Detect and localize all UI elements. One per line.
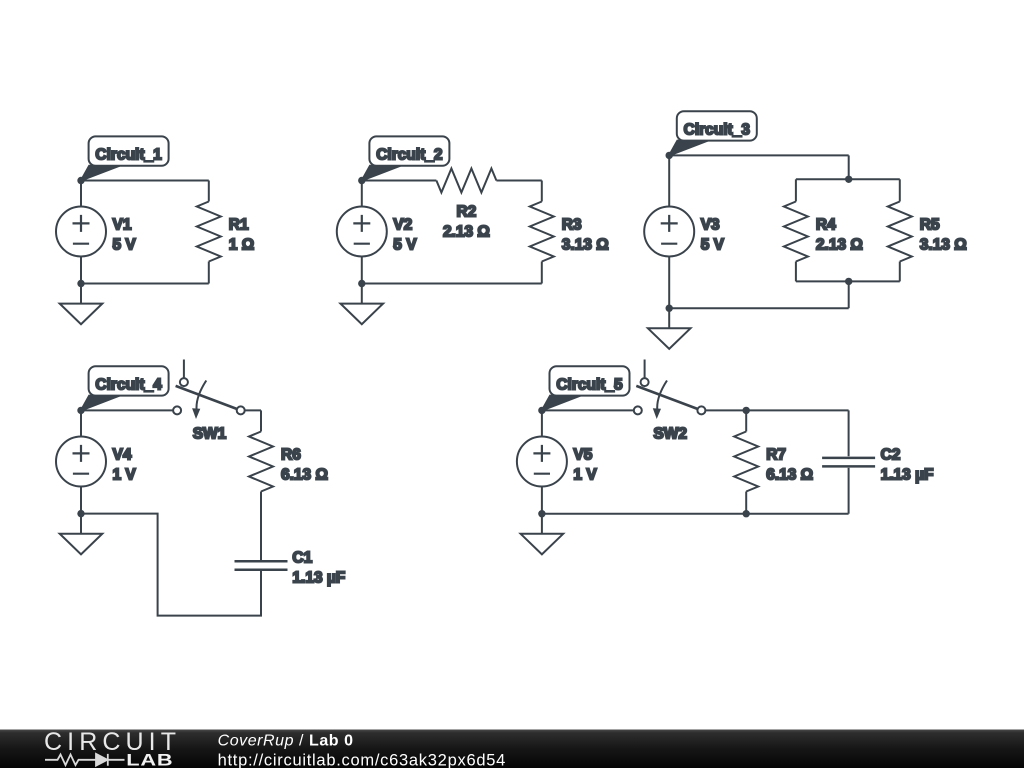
label C2: [881, 447, 934, 484]
wire: [668, 257, 670, 309]
voltage source V4: [56, 437, 106, 487]
svg-text:Circuit_1: Circuit_1: [95, 146, 162, 163]
wire: [796, 178, 900, 180]
node Circuit_5 junction: [538, 407, 545, 414]
wire: [848, 155, 850, 179]
label V3: [701, 217, 725, 254]
wire: [260, 492, 262, 561]
label C1: [292, 550, 345, 587]
label V1: [113, 217, 137, 254]
wire: [848, 468, 850, 514]
voltage source V1: [56, 207, 106, 257]
switch SW1 left throw terminal: [173, 406, 181, 414]
svg-text:V5: V5: [573, 447, 592, 464]
svg-text:R4: R4: [816, 217, 836, 234]
label V4: [113, 447, 137, 484]
resistor R6: [249, 432, 273, 492]
wire: [669, 154, 849, 156]
svg-text:C2: C2: [881, 447, 901, 464]
svg-text:2.13 Ω: 2.13 Ω: [443, 224, 490, 241]
wire: [542, 513, 849, 515]
resistor R2: [436, 169, 496, 193]
wire: [81, 409, 173, 411]
wire: [81, 514, 261, 616]
wire: [361, 257, 363, 284]
junction: [845, 278, 852, 285]
voltage source V3: [644, 207, 694, 257]
svg-text:V4: V4: [113, 447, 132, 464]
wire: [80, 410, 82, 436]
wire: [81, 283, 209, 285]
label V2: [393, 217, 417, 254]
switch SW2 actuation arrow: [653, 381, 667, 420]
switch SW1 common terminal: [237, 406, 245, 414]
wire: [848, 281, 850, 308]
switch SW1 top-throw stub: [183, 360, 185, 379]
svg-text:V2: V2: [393, 217, 412, 234]
wire: [899, 262, 901, 282]
svg-text:Circuit_5: Circuit_5: [556, 376, 623, 393]
wire: [260, 410, 262, 431]
svg-text:3.13 Ω: 3.13 Ω: [562, 237, 609, 254]
switch SW1 lever: [176, 386, 241, 411]
svg-text:R6: R6: [281, 447, 301, 464]
wire: [80, 487, 82, 514]
label R7: [766, 447, 813, 484]
wire: [362, 180, 437, 182]
net flag Circuit_4: [81, 366, 169, 410]
label V5: [573, 447, 597, 484]
ground: [648, 308, 691, 349]
svg-text:CoverRup / Lab 0: CoverRup / Lab 0: [218, 733, 354, 750]
switch SW1 actuation arrow: [192, 381, 206, 420]
node 0 junction: [538, 510, 545, 517]
svg-text:3.13 Ω: 3.13 Ω: [920, 237, 967, 254]
wire: [669, 307, 849, 309]
wire: [80, 181, 82, 207]
wire: [848, 410, 850, 456]
svg-text:Circuit_3: Circuit_3: [684, 121, 751, 138]
wire: [208, 181, 210, 202]
svg-text:V3: V3: [701, 217, 720, 234]
svg-text:1.13 µF: 1.13 µF: [881, 467, 934, 484]
label R5: [920, 217, 967, 254]
net flag Circuit_3: [669, 111, 757, 155]
svg-text:R3: R3: [562, 217, 582, 234]
ground: [341, 284, 384, 325]
svg-text:1 V: 1 V: [113, 467, 137, 484]
wire: [80, 257, 82, 284]
junction: [743, 407, 750, 414]
resistor R5: [888, 202, 912, 262]
svg-text:R2: R2: [456, 204, 476, 221]
svg-text:SW2: SW2: [653, 426, 687, 443]
node 0 junction: [358, 280, 365, 287]
svg-text:R5: R5: [920, 217, 940, 234]
ground: [521, 514, 564, 555]
wire: [541, 410, 543, 436]
voltage source V5: [517, 437, 567, 487]
svg-text:R7: R7: [766, 447, 786, 464]
wire: [899, 179, 901, 201]
switch SW2 top throw terminal: [641, 378, 649, 386]
capacitor C2: [822, 458, 875, 467]
capacitor C1: [235, 561, 288, 570]
wire: [496, 180, 541, 182]
wire: [795, 262, 797, 282]
svg-text:1.13 µF: 1.13 µF: [292, 570, 345, 587]
svg-text:http://circuitlab.com/c63ak32p: http://circuitlab.com/c63ak32px6d54: [218, 751, 506, 768]
svg-text:1 Ω: 1 Ω: [229, 237, 254, 254]
switch SW2 common terminal: [697, 406, 705, 414]
wire: [245, 409, 261, 411]
wire: [541, 181, 543, 202]
svg-text:6.13 Ω: 6.13 Ω: [281, 467, 328, 484]
node Circuit_2 junction: [358, 177, 365, 184]
footer bar: [0, 730, 1024, 768]
svg-text:2.13 Ω: 2.13 Ω: [816, 237, 863, 254]
node Circuit_1 junction: [77, 177, 84, 184]
net flag Circuit_1: [81, 136, 169, 180]
svg-text:Circuit_4: Circuit_4: [95, 376, 162, 393]
switch SW2 lever: [636, 386, 701, 411]
wire: [796, 280, 900, 282]
svg-text:LAB: LAB: [126, 752, 173, 768]
wire: [668, 155, 670, 206]
label R4: [816, 217, 863, 254]
net flag Circuit_5: [542, 366, 630, 410]
svg-text:R1: R1: [229, 217, 249, 234]
CircuitLab logo resistor-diode glyph: [45, 754, 125, 766]
wire: [361, 181, 363, 207]
label R6: [281, 447, 328, 484]
resistor R1: [197, 202, 221, 262]
svg-text:SW1: SW1: [193, 426, 227, 443]
svg-text:V1: V1: [113, 217, 132, 234]
label R1: [229, 217, 254, 254]
switch SW2 top-throw stub: [644, 360, 646, 379]
node 0 junction: [666, 305, 673, 312]
net flag Circuit_2: [362, 136, 450, 180]
ground: [60, 514, 103, 555]
switch SW1 top throw terminal: [180, 378, 188, 386]
wire: [705, 409, 848, 411]
wire: [81, 180, 209, 182]
svg-text:5 V: 5 V: [701, 237, 725, 254]
node 0 junction: [77, 510, 84, 517]
resistor R4: [784, 202, 808, 262]
junction: [845, 176, 852, 183]
svg-text:6.13 Ω: 6.13 Ω: [766, 467, 813, 484]
svg-text:C1: C1: [292, 550, 312, 567]
voltage source V2: [337, 207, 387, 257]
resistor R3: [530, 202, 554, 262]
svg-text:Circuit_2: Circuit_2: [376, 146, 442, 163]
svg-text:5 V: 5 V: [113, 237, 137, 254]
wire: [795, 179, 797, 201]
wire: [745, 492, 747, 514]
wire: [208, 262, 210, 284]
wire: [542, 409, 634, 411]
label R3: [562, 217, 609, 254]
node Circuit_4 junction: [77, 407, 84, 414]
svg-text:5 V: 5 V: [393, 237, 417, 254]
node 0 junction: [77, 280, 84, 287]
wire: [541, 487, 543, 514]
wire: [541, 262, 543, 284]
resistor R7: [734, 432, 758, 492]
svg-text:1 V: 1 V: [573, 467, 597, 484]
wire: [362, 283, 542, 285]
node Circuit_3 junction: [666, 152, 673, 159]
label R2: [443, 204, 490, 241]
wire: [745, 410, 747, 431]
switch SW2 left throw terminal: [634, 406, 642, 414]
junction: [743, 510, 750, 517]
ground: [60, 284, 103, 325]
